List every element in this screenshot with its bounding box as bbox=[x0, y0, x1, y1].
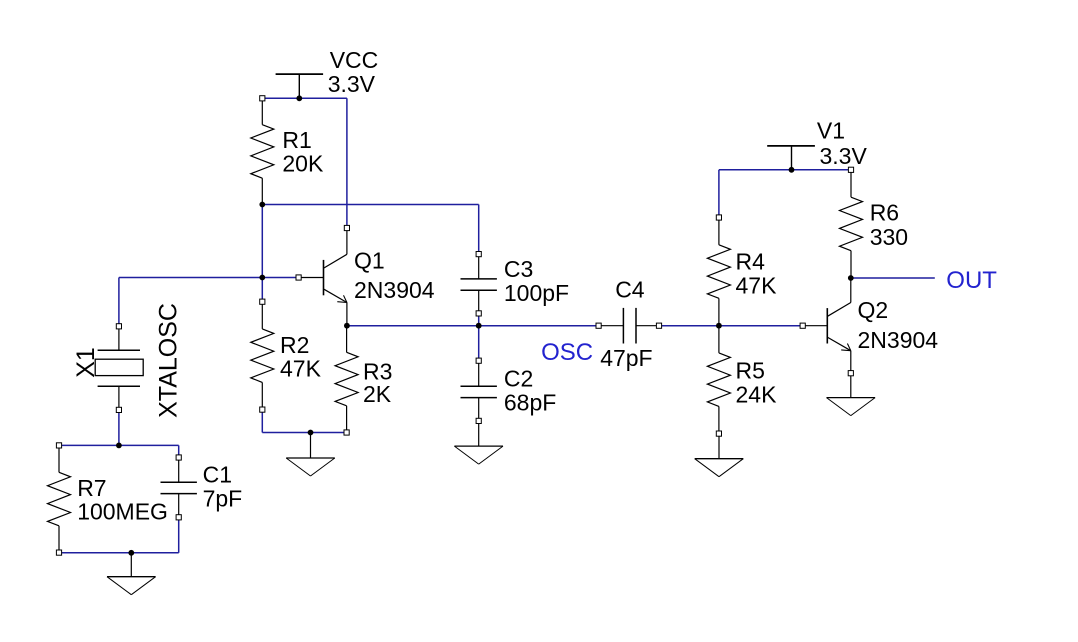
wire base node horizontal bbox=[262, 204, 478, 206]
junction R7-C1 ground node bbox=[128, 550, 134, 556]
pin C3.1 bbox=[476, 252, 481, 257]
ground below R7/C1 bbox=[130, 553, 132, 577]
junction R4-R5 node bbox=[716, 323, 722, 329]
wire R7/C1 bottom ground bbox=[59, 552, 179, 554]
junction ground node bbox=[308, 430, 314, 436]
svg-text:R7: R7 bbox=[77, 475, 106, 501]
ground below R5 bbox=[718, 436, 720, 459]
pin R6.1 bbox=[848, 167, 853, 172]
pin C1.2 bbox=[176, 515, 181, 520]
svg-text:C4: C4 bbox=[615, 277, 645, 303]
pin C1.1 bbox=[176, 455, 181, 460]
wire VCC to Q1 collector bbox=[346, 98, 348, 228]
junction X1-R7-C1 node bbox=[116, 443, 122, 449]
svg-text:100pF: 100pF bbox=[504, 280, 569, 306]
svg-text:2K: 2K bbox=[363, 381, 392, 407]
ground below C2 bbox=[478, 421, 480, 446]
transistor Q1 bbox=[323, 260, 325, 295]
pin R1.1 bbox=[260, 96, 265, 101]
svg-text:100MEG: 100MEG bbox=[77, 499, 168, 525]
junction Q1 emitter OSC node bbox=[344, 323, 350, 329]
svg-text:330: 330 bbox=[870, 224, 908, 250]
resistor R5 bbox=[718, 326, 720, 353]
wire X1 to R7/C1 node bbox=[118, 410, 120, 446]
power symbol V1 bbox=[767, 145, 815, 147]
junction OUT node bbox=[848, 275, 854, 281]
resistor R6 bbox=[850, 170, 852, 197]
pin C2.1 bbox=[476, 358, 481, 363]
svg-text:7pF: 7pF bbox=[203, 486, 243, 512]
svg-text:R1: R1 bbox=[282, 127, 311, 153]
svg-text:VCC: VCC bbox=[330, 47, 379, 73]
svg-text:47K: 47K bbox=[736, 273, 778, 299]
junction VCC node bbox=[296, 95, 302, 101]
pin R3.2 bbox=[344, 430, 349, 435]
capacitor C2 bbox=[478, 362, 480, 387]
svg-text:R4: R4 bbox=[736, 249, 766, 275]
svg-text:47K: 47K bbox=[280, 356, 322, 382]
wire OUT bbox=[851, 277, 935, 279]
pin Q2 emitter bbox=[848, 371, 853, 376]
svg-text:Q2: Q2 bbox=[858, 297, 889, 323]
junction base node bbox=[259, 275, 265, 281]
capacitor C4 bbox=[599, 325, 624, 327]
ground below R2/R3 bbox=[310, 433, 312, 459]
pin X1.1 bbox=[116, 324, 121, 329]
wire V1 to R6 bbox=[719, 169, 851, 171]
pin Q1 collector bbox=[344, 225, 349, 230]
pin Q1 base bbox=[296, 275, 301, 280]
pin C4.2 bbox=[656, 323, 661, 328]
pin R7.1 bbox=[56, 443, 61, 448]
pin R2.1 bbox=[260, 299, 265, 304]
wire OSC bbox=[347, 325, 599, 327]
svg-text:R6: R6 bbox=[870, 200, 899, 226]
svg-text:R5: R5 bbox=[736, 357, 765, 383]
wire base node to X1 bbox=[118, 278, 120, 327]
svg-text:OUT: OUT bbox=[946, 267, 997, 294]
svg-text:C3: C3 bbox=[504, 256, 533, 282]
wire V1 to R4 bbox=[718, 170, 720, 218]
resistor R4 bbox=[718, 218, 720, 245]
junction V1 node bbox=[789, 167, 795, 173]
resistor R3 bbox=[346, 326, 348, 353]
pin R7.2 bbox=[56, 550, 61, 555]
svg-text:2N3904: 2N3904 bbox=[354, 277, 435, 303]
svg-text:3.3V: 3.3V bbox=[820, 143, 868, 169]
power symbol VCC bbox=[276, 73, 324, 75]
pin C4.1 bbox=[596, 323, 601, 328]
wire VCC to R1 bbox=[262, 97, 347, 99]
wire R2 to ground node bbox=[261, 410, 263, 433]
wire C4 to Q2 base bbox=[659, 325, 803, 327]
wire C1 to ground node bbox=[178, 517, 180, 553]
svg-text:24K: 24K bbox=[736, 381, 778, 407]
svg-text:47pF: 47pF bbox=[600, 345, 652, 371]
svg-text:Q1: Q1 bbox=[354, 247, 385, 273]
wire ground node horizontal bbox=[262, 432, 346, 434]
svg-text:OSC: OSC bbox=[541, 339, 593, 366]
svg-text:20K: 20K bbox=[282, 151, 324, 177]
wire C3 to C2 branch bbox=[478, 313, 480, 361]
resistor R1 bbox=[261, 98, 263, 124]
resistor R2 bbox=[261, 302, 263, 329]
svg-text:3.3V: 3.3V bbox=[328, 71, 376, 97]
transistor Q2 bbox=[826, 308, 828, 343]
crystal X1 bbox=[118, 326, 120, 350]
svg-text:XTALOSC: XTALOSC bbox=[155, 303, 183, 418]
wire base node to Q1 base bbox=[119, 277, 299, 279]
pin C2.2 bbox=[476, 418, 481, 423]
junction R1-R2 node bbox=[259, 202, 265, 208]
svg-text:2N3904: 2N3904 bbox=[858, 327, 939, 353]
junction C3-C2 OSC node bbox=[476, 323, 482, 329]
capacitor C1 bbox=[178, 458, 180, 483]
pin C3.2 bbox=[476, 311, 481, 316]
svg-text:C1: C1 bbox=[203, 461, 232, 487]
ground below Q2 emitter bbox=[850, 376, 852, 398]
wire base node to R2 bbox=[261, 205, 263, 302]
wire to C1 top bbox=[178, 445, 180, 457]
svg-text:68pF: 68pF bbox=[504, 390, 556, 416]
svg-text:X1: X1 bbox=[72, 347, 100, 378]
svg-text:R2: R2 bbox=[280, 332, 309, 358]
wire R7/C1 top bbox=[59, 444, 179, 446]
pin R2.2 bbox=[260, 407, 265, 412]
wire base node to C3 bbox=[478, 205, 480, 255]
pin R4.1 bbox=[716, 215, 721, 220]
pin X1.2 bbox=[116, 407, 121, 412]
capacitor C3 bbox=[478, 254, 480, 279]
svg-text:V1: V1 bbox=[817, 118, 845, 144]
svg-text:C2: C2 bbox=[504, 366, 533, 392]
pin R5.2 bbox=[716, 431, 721, 436]
resistor R7 bbox=[58, 445, 60, 472]
pin Q2 base bbox=[800, 323, 805, 328]
